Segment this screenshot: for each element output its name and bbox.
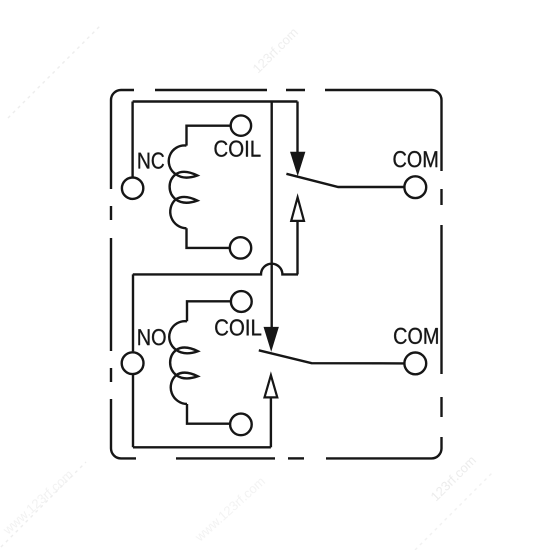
wire: below bottom hollow arrow to K2 bottom edge: [270, 398, 272, 447]
relay K2 box left edge upper: [132, 274, 134, 351]
relay K1 box left edge: [131, 102, 133, 178]
watermark streak bottom-right: [415, 473, 492, 550]
bottom switch hollow arrow up: [265, 375, 278, 397]
terminal COM top: [404, 176, 426, 198]
relay outline dashed border: bottom-right corner piece: [326, 437, 442, 458]
relay outline dashed border: bottom dash 2: [288, 457, 304, 459]
terminal COM bottom: [404, 353, 426, 375]
coil L1 winding: [169, 145, 198, 228]
label COM top: [394, 151, 438, 167]
terminal NO: [122, 352, 144, 374]
coil L1 bottom lead: [187, 228, 230, 248]
wire: top switch drop from box top edge: [296, 102, 298, 153]
label NO: [138, 329, 165, 345]
relay outline dashed border: top dash 1: [155, 89, 267, 91]
relay outline dashed border: top dash 2: [286, 89, 305, 91]
coil L2 winding: [169, 321, 198, 404]
relay outline dashed border: left dash 3: [110, 368, 112, 382]
watermark streak top-left: [8, 24, 102, 118]
wire: below top hollow arrow to middle edge: [296, 221, 298, 274]
relay outline dashed border: bottom-left corner piece: [111, 399, 136, 458]
label COM bottom: [394, 328, 438, 344]
relay K1 box top edge: [133, 100, 298, 102]
coil L2 top lead: [187, 301, 231, 321]
terminal NC: [122, 178, 143, 199]
terminal COIL L1 bottom: [230, 237, 251, 258]
relay outline dashed border: top-left corner piece: [111, 90, 134, 189]
watermark streak bottom-left: [0, 462, 86, 550]
wire: bottom switch blade: [259, 350, 405, 363]
relay outline dashed border: left dash 2: [110, 238, 112, 351]
top switch hollow arrow up: [291, 197, 304, 221]
terminal COIL L1 top: [231, 115, 251, 135]
shared middle edge with hop over wire: [133, 264, 298, 275]
relay outline dashed border: top-right corner piece: [325, 90, 442, 171]
label NC: [139, 152, 165, 168]
relay K2 box bottom edge: [133, 446, 271, 448]
wire: top switch blade: [286, 174, 404, 187]
relay outline dashed border: bottom dash 1: [176, 457, 275, 459]
relay outline dashed border: right dash 2: [440, 225, 442, 374]
label COIL top: [215, 141, 261, 157]
terminal COIL L2 bottom: [230, 414, 252, 436]
top switch filled arrow down: [291, 152, 305, 174]
wire: K1 box right edge down to lower switch: [271, 102, 273, 328]
relay outline dashed border: right dash 1: [440, 189, 442, 205]
relay outline dashed border: right dash 3: [440, 397, 442, 417]
relay outline dashed border: left dash 1: [110, 206, 112, 220]
bottom switch filled arrow down: [264, 327, 278, 350]
coil L1 top lead: [187, 126, 231, 146]
coil L2 bottom lead: [187, 404, 230, 424]
label COIL bottom: [215, 319, 261, 335]
terminal COIL L2 top: [231, 291, 252, 312]
relay K2 box left edge lower: [132, 374, 134, 447]
